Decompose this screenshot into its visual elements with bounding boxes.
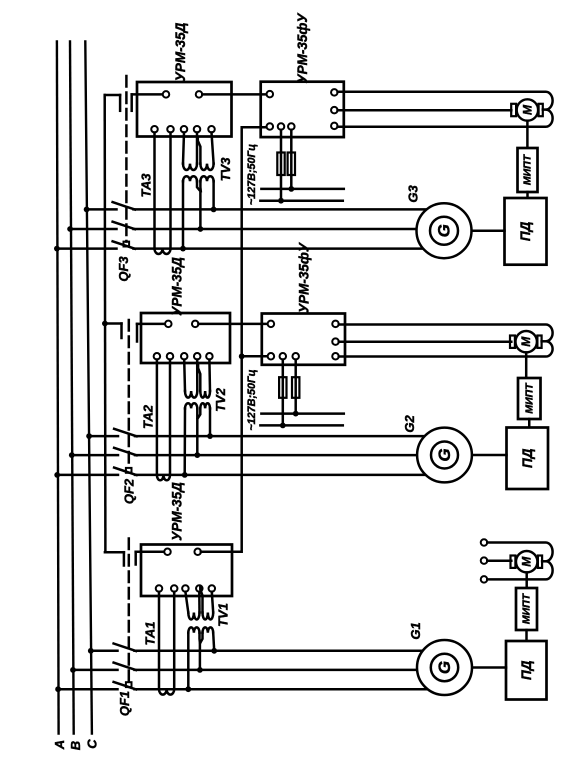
node TV2 to phase 2 bbox=[194, 452, 200, 458]
terminal URM-35D1 bottom 4 bbox=[196, 585, 203, 592]
fuse FU2.2 bbox=[292, 360, 299, 414]
label TA2 bbox=[141, 404, 156, 429]
voltage transformer TV2 primary winding bbox=[184, 360, 210, 398]
terminal URM-35fU3 right 1 bbox=[331, 89, 338, 96]
voltage transformer TV2 secondary winding bbox=[185, 403, 210, 475]
converter MIPT unit 1 bbox=[516, 588, 537, 630]
svg-text:МИПТ: МИПТ bbox=[522, 153, 534, 185]
node TV1 to phase 3 bbox=[185, 686, 191, 692]
breaker QF3 blade phase 2 bbox=[113, 222, 135, 230]
exciter motor M2 bbox=[516, 331, 537, 352]
svg-text:~127В;50Гц: ~127В;50Гц bbox=[246, 144, 258, 205]
node TV3 to phase 2 bbox=[198, 226, 204, 232]
node bus tap phase 2 unit 3 bbox=[67, 226, 73, 232]
svg-text:УРМ-35Д: УРМ-35Д bbox=[170, 257, 185, 316]
terminal URM-35fU2 bottom 2 bbox=[292, 353, 299, 360]
terminal URM-35D3 bottom 5 bbox=[208, 126, 215, 133]
terminal URM-35D2 top-right bbox=[192, 321, 199, 328]
svg-text:ТА2: ТА2 bbox=[141, 404, 156, 429]
breaker QF2 blade phase 3 bbox=[114, 468, 136, 476]
label bus B bbox=[68, 741, 83, 750]
wire 127V supply rail 2 unit 2 bbox=[260, 424, 342, 427]
wire aux contact to URM-35D1 left terminal bbox=[136, 551, 165, 554]
breaker QF3 mechanical linkage (dashed) bbox=[124, 76, 130, 247]
terminal URM-35D2 top-left bbox=[165, 321, 172, 328]
terminal URM-35D3 bottom 1 bbox=[151, 126, 158, 133]
svg-text:УРМ-35фУ: УРМ-35фУ bbox=[295, 13, 310, 84]
svg-text:ПД: ПД bbox=[520, 448, 535, 468]
node bus tap phase 2 unit 2 bbox=[69, 452, 75, 458]
label QF2 bbox=[122, 478, 137, 504]
breaker QF2 blade phase 1 bbox=[114, 429, 136, 437]
wire phase 3 unit 3: bus to QF3 contact bbox=[57, 247, 117, 250]
node bus tap phase 1 unit 1 bbox=[88, 648, 94, 654]
svg-text:G: G bbox=[435, 224, 454, 237]
label G2 bbox=[402, 415, 417, 433]
generator G2 bbox=[417, 428, 472, 483]
wire phase 1 unit 2: bus to QF2 contact bbox=[89, 435, 118, 438]
svg-text:G3: G3 bbox=[406, 185, 421, 203]
converter MIPT unit 3 bbox=[518, 148, 538, 192]
wire URM-35D2 right terminal to URM-35fU2 bbox=[198, 323, 266, 326]
brush left M2 bbox=[510, 336, 515, 348]
bus B bbox=[70, 42, 74, 734]
node bus tap phase 3 unit 2 bbox=[54, 472, 60, 478]
breaker QF2 mechanical linkage (dashed) bbox=[126, 320, 132, 473]
wire G2 to PD2 bbox=[472, 454, 507, 457]
auxiliary contact of QF2 bbox=[105, 324, 137, 342]
svg-text:~127В;50Гц: ~127В;50Гц bbox=[246, 369, 258, 430]
svg-text:QF2: QF2 bbox=[122, 478, 137, 504]
wire aux contact to URM-35D2 left terminal bbox=[137, 323, 165, 326]
svg-text:TV1: TV1 bbox=[216, 603, 231, 627]
svg-text:УРМ-35Д: УРМ-35Д bbox=[173, 22, 188, 81]
generator G1 bbox=[417, 640, 472, 695]
label URM-35D unit 2 bbox=[170, 257, 185, 316]
node TV2 to phase 3 bbox=[182, 472, 188, 478]
wire phase 1 unit 3: QF3 to generator G3 bbox=[134, 208, 427, 211]
terminal URM-35D1 bottom 3 bbox=[182, 585, 189, 592]
terminal URM-35D2 bottom 3 bbox=[181, 353, 188, 360]
exciter motor M1 bbox=[516, 551, 537, 572]
wire to exciter M2 armature (middle) bbox=[339, 340, 512, 343]
label TA3 bbox=[139, 173, 154, 198]
node bus tap phase 2 unit 1 bbox=[70, 667, 76, 673]
terminal URM-35fU3 right 2 bbox=[331, 107, 338, 114]
wire phase 1 unit 1: bus to QF1 contact bbox=[91, 650, 118, 653]
wire G1 to PD1 bbox=[472, 666, 506, 669]
fuse FU3.2 bbox=[288, 130, 295, 189]
auxiliary contact of QF1 bbox=[105, 552, 136, 566]
svg-text:В: В bbox=[68, 741, 83, 750]
label URM-35fU unit 2 bbox=[297, 242, 312, 313]
wire to exciter M2 field (top) and winding bbox=[339, 325, 553, 357]
prime mover PD unit 3 bbox=[505, 198, 547, 265]
control device U3 URM-35D bbox=[137, 82, 232, 137]
wire phase 2 unit 3: QF3 to generator G3 bbox=[134, 228, 417, 231]
prime mover PD unit 1 bbox=[506, 641, 547, 700]
terminal URM-35D1 bottom 2 bbox=[171, 585, 178, 592]
wire right brush to winding M1 bbox=[542, 560, 545, 563]
voltage transformer TV3 secondary winding bbox=[183, 176, 214, 248]
wire M3 to MIPT3 bbox=[526, 121, 529, 148]
terminal URM-35D1 top-left bbox=[164, 549, 171, 556]
wire right brush to winding M2 bbox=[542, 340, 546, 343]
node TV1 to phase 2 bbox=[197, 667, 203, 673]
fuse FU3.1 bbox=[277, 130, 284, 201]
terminal URM-35fU3 right 3 bbox=[331, 123, 338, 129]
svg-text:МИПТ: МИПТ bbox=[523, 382, 535, 414]
wire to exciter M3 field (top) and winding bbox=[338, 92, 553, 127]
breaker QF3 blade phase 1 bbox=[113, 202, 135, 210]
node fuse FU2.2 / rail 1 bbox=[293, 411, 299, 417]
terminal URM-35D3 bottom 2 bbox=[167, 126, 174, 133]
svg-text:М: М bbox=[520, 556, 534, 567]
brush left M1 bbox=[511, 556, 516, 568]
current transformer TA1 (loops on phase 3 with leads from URM-35D1) bbox=[159, 592, 174, 695]
terminal URM-35fU2 left upper bbox=[268, 321, 275, 328]
wire to exciter M1 field (top) and winding bbox=[487, 543, 552, 580]
prime mover PD unit 2 bbox=[507, 428, 549, 490]
svg-text:G: G bbox=[435, 448, 454, 461]
wire M2 to MIPT2 bbox=[525, 352, 528, 378]
svg-text:QF3: QF3 bbox=[116, 256, 131, 282]
terminal URM-35fU3 bottom 1 bbox=[278, 123, 285, 130]
terminal exciter feed 2 unit 1 bbox=[481, 557, 488, 564]
breaker QF1 blade phase 1 bbox=[114, 644, 136, 652]
wire phase 3 unit 2: bus to QF2 contact bbox=[57, 474, 118, 477]
current transformer TA3 (loops on phase 3 with leads from URM-35D3) bbox=[155, 132, 171, 254]
wire URM-35D1 right terminal to sync link bbox=[200, 551, 203, 554]
terminal URM-35fU2 right 1 bbox=[332, 321, 339, 328]
terminal URM-35D2 bottom 5 bbox=[206, 353, 213, 360]
svg-text:TV2: TV2 bbox=[213, 387, 228, 412]
terminal URM-35fU3 bottom 2 bbox=[288, 123, 295, 130]
wire phase 1 unit 1: QF1 to generator G1 bbox=[135, 650, 423, 653]
terminal URM-35D3 top-right bbox=[196, 91, 203, 98]
label QF1 bbox=[117, 691, 132, 716]
junction sync link / URM-35fU2 terminal wire bbox=[239, 353, 245, 359]
wire MIPT3 to PD3 bbox=[526, 192, 529, 198]
terminal URM-35fU3 left lower bbox=[267, 123, 274, 130]
wire phase 2 unit 1: bus to QF1 contact bbox=[73, 669, 118, 672]
node bus tap phase 3 unit 1 bbox=[55, 686, 61, 692]
label G1 bbox=[408, 622, 423, 639]
wire 127V supply rail 1 unit 3 bbox=[261, 188, 343, 191]
terminal URM-35fU2 bottom 1 bbox=[280, 353, 287, 360]
wire phase 3 unit 3: QF3 to generator G3 bbox=[134, 247, 424, 250]
breaker QF1 blade phase 2 bbox=[114, 663, 136, 671]
node fuse FU3.1 / rail 2 bbox=[278, 198, 284, 204]
wire phase 3 unit 1: QF1 to generator G1 bbox=[135, 688, 428, 691]
label bus C bbox=[85, 739, 100, 749]
node TV3 to phase 3 bbox=[180, 246, 186, 252]
wire MIPT1 to PD1 bbox=[525, 630, 528, 641]
wire phase 1 unit 2: QF2 to generator G2 bbox=[135, 435, 425, 438]
label URM-35D unit 1 bbox=[170, 482, 185, 541]
wire to exciter M1 armature (middle) bbox=[487, 560, 511, 563]
brush right M2 bbox=[537, 336, 541, 348]
svg-text:TV3: TV3 bbox=[218, 157, 233, 182]
terminal URM-35D2 bottom 4 bbox=[194, 353, 201, 360]
breaker QF2 blade phase 2 bbox=[114, 448, 136, 456]
terminal URM-35D3 top-left bbox=[163, 91, 170, 98]
wire URM-35D3 right terminal to URM-35fU3 bbox=[202, 93, 267, 96]
fuse FU2.1 bbox=[279, 360, 286, 426]
wire to exciter M3 armature (middle) bbox=[338, 109, 512, 112]
node TV2 to phase 1 bbox=[207, 433, 213, 439]
terminal exciter feed 1 unit 1 bbox=[481, 539, 488, 546]
terminal URM-35D2 bottom 2 bbox=[167, 353, 174, 360]
label G3 bbox=[406, 185, 421, 203]
wire M1 to MIPT1 bbox=[525, 572, 528, 588]
bus C bbox=[85, 42, 92, 734]
current transformer TA2 (loops on phase 3 with leads from URM-35D2) bbox=[157, 360, 170, 481]
breaker QF1 blade phase 3 bbox=[114, 682, 136, 690]
terminal URM-35D3 bottom 4 bbox=[194, 126, 201, 133]
bus A bbox=[57, 42, 59, 734]
regulator URM-35fU unit 2 bbox=[262, 314, 345, 365]
svg-text:G2: G2 bbox=[402, 415, 417, 433]
node bus tap phase 1 unit 3 bbox=[84, 207, 90, 213]
brush right M3 bbox=[539, 104, 543, 116]
wire MIPT2 to PD2 bbox=[528, 419, 531, 428]
svg-text:МИПТ: МИПТ bbox=[521, 592, 533, 624]
terminal URM-35D3 bottom 3 bbox=[181, 126, 188, 133]
wire phase 3 unit 1: bus to QF1 contact bbox=[58, 688, 117, 691]
wire sync link (URM-35fU3 lower terminal to URM-35D1 upper terminal) bbox=[201, 127, 267, 552]
node fuse FU2.1 / rail 2 bbox=[280, 423, 286, 429]
node TV1 to phase 1 bbox=[211, 648, 217, 654]
brush right M1 bbox=[538, 556, 542, 568]
voltage transformer TV1 primary winding bbox=[185, 587, 213, 620]
terminal URM-35fU2 left lower bbox=[268, 353, 275, 360]
wire phase 2 unit 3: bus to QF3 contact bbox=[70, 228, 116, 231]
label URM-35fU unit 3 bbox=[295, 13, 310, 84]
label TA1 bbox=[143, 621, 158, 645]
regulator URM-35fU unit 3 bbox=[261, 82, 344, 137]
voltage transformer TV3 primary winding bbox=[183, 132, 214, 170]
label URM-35D unit 3 bbox=[173, 22, 188, 81]
converter MIPT unit 2 bbox=[518, 378, 541, 419]
svg-text:QF1: QF1 bbox=[117, 691, 132, 716]
wire phase 2 unit 2: bus to QF2 contact bbox=[72, 454, 118, 457]
label TV1 bbox=[216, 603, 231, 627]
control device U1 URM-35D bbox=[141, 545, 232, 597]
wire 127V supply rail 2 unit 3 bbox=[260, 199, 342, 202]
svg-text:А: А bbox=[52, 740, 67, 750]
terminal URM-35D1 bottom 5 bbox=[209, 585, 216, 592]
svg-text:G1: G1 bbox=[408, 622, 423, 639]
wire 127V supply rail 1 unit 2 bbox=[261, 412, 343, 415]
label TV2 bbox=[213, 387, 228, 412]
wire URM-35fU2 lower-left terminal to sync link bbox=[242, 355, 268, 358]
terminal URM-35D1 top-right bbox=[194, 549, 201, 556]
node bus tap phase 3 unit 3 bbox=[54, 246, 60, 252]
generator G3 bbox=[417, 203, 472, 258]
svg-text:ПД: ПД bbox=[518, 221, 533, 241]
svg-text:М: М bbox=[519, 336, 533, 347]
auxiliary contact of QF3 bbox=[105, 94, 132, 110]
svg-text:УРМ-35Д: УРМ-35Д bbox=[170, 482, 185, 541]
node bus tap phase 1 unit 2 bbox=[86, 433, 92, 439]
wire aux-contact chain (vertical, links QF3/QF2/QF1 auxiliary contacts) bbox=[103, 95, 106, 552]
wire phase 1 unit 3: bus to QF3 contact bbox=[87, 208, 117, 211]
wire G3 to PD3 bbox=[472, 229, 505, 232]
wire phase 2 unit 1: QF1 to generator G1 bbox=[135, 669, 418, 672]
junction aux chain / QF2 aux contact bbox=[102, 321, 108, 327]
wire phase 3 unit 2: QF2 to generator G2 bbox=[135, 474, 426, 477]
control device U2 URM-35D bbox=[141, 313, 230, 363]
svg-text:ПД: ПД bbox=[519, 660, 534, 680]
breaker QF3 blade phase 3 bbox=[113, 241, 135, 249]
exciter motor M3 bbox=[517, 99, 538, 120]
svg-text:ТА3: ТА3 bbox=[139, 173, 154, 198]
label ~127V 50Hz unit 2 bbox=[246, 369, 258, 430]
brush left M3 bbox=[511, 104, 516, 116]
breaker QF1 mechanical linkage (dashed) bbox=[126, 539, 132, 688]
svg-text:С: С bbox=[85, 739, 100, 749]
terminal URM-35fU2 right 2 bbox=[332, 338, 339, 345]
label TV3 bbox=[218, 157, 233, 182]
svg-text:ТА1: ТА1 bbox=[143, 621, 158, 645]
voltage transformer TV1 secondary winding bbox=[188, 627, 214, 689]
label ~127V 50Hz unit 3 bbox=[246, 144, 258, 205]
wire aux contact to URM-35D3 left terminal bbox=[132, 93, 163, 96]
terminal URM-35D2 bottom 1 bbox=[154, 353, 161, 360]
label QF3 bbox=[116, 256, 131, 282]
terminal URM-35D1 bottom 1 bbox=[156, 585, 163, 592]
svg-text:УРМ-35фУ: УРМ-35фУ bbox=[297, 242, 312, 313]
svg-text:G: G bbox=[435, 661, 454, 674]
terminal URM-35fU3 left upper bbox=[267, 91, 274, 98]
wire phase 2 unit 2: QF2 to generator G2 bbox=[135, 454, 417, 457]
svg-text:М: М bbox=[520, 104, 534, 115]
label bus A bbox=[52, 740, 67, 750]
terminal URM-35fU2 right 3 bbox=[332, 353, 339, 360]
node fuse FU3.2 / rail 1 bbox=[288, 186, 294, 192]
node TV3 to phase 1 bbox=[211, 207, 217, 213]
wire right brush to winding M3 bbox=[543, 108, 546, 111]
terminal exciter feed 3 unit 1 bbox=[481, 576, 488, 583]
